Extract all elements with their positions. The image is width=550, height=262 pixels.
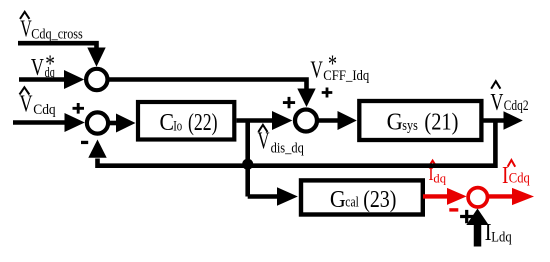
svg-text:Ldq: Ldq: [491, 229, 512, 245]
svg-text:V: V: [20, 92, 33, 118]
svg-text:V: V: [31, 55, 44, 81]
svg-text:C: C: [160, 110, 175, 136]
wire sumI output ICdq (red): [487, 188, 534, 205]
summer sum2: [87, 112, 108, 133]
node VCFF_Idq label: [310, 51, 369, 84]
svg-text:cal: cal: [345, 195, 359, 211]
wire CIo to sum3: [237, 111, 293, 130]
node Vcdq2 label: [490, 81, 528, 116]
node Vdis_dq label: [258, 125, 305, 157]
wire branch Vdis_dq down to Gcal: [245, 121, 250, 197]
svg-text:V: V: [258, 129, 270, 155]
node Idq red label: [428, 161, 446, 186]
plus sign at sumI bottom input: [460, 210, 473, 223]
svg-text:(23): (23): [363, 187, 396, 213]
svg-text:dq: dq: [433, 171, 446, 186]
svg-text:G: G: [387, 110, 403, 136]
wire sum3 to Gsys: [317, 111, 357, 130]
node Vdq* label: [31, 51, 55, 81]
wire Vcdq_cross to sum1: [18, 43, 106, 66]
node ICdq red label: [502, 160, 530, 189]
svg-text:V: V: [490, 90, 503, 116]
summer sum3: [295, 110, 317, 132]
plus sign at sum3 left input: [283, 97, 295, 108]
block Gcal (23): [301, 180, 423, 214]
svg-text:V: V: [310, 58, 323, 84]
summer sum1: [86, 69, 107, 90]
block Gsys (21): [359, 101, 481, 140]
summer sumI (red): [468, 188, 487, 207]
svg-text:(22): (22): [188, 110, 218, 136]
wire feedback Vcdq2 to sum2 minus: [88, 121, 495, 166]
svg-text:sys: sys: [402, 118, 418, 134]
wire Gcal to sumI (red): [423, 188, 467, 205]
svg-text:(21): (21): [424, 110, 458, 136]
plus sign at sum2 input: [73, 103, 85, 114]
wire ILdq into sumI bottom: [466, 209, 488, 247]
svg-text:G: G: [330, 187, 346, 213]
minus sign at sum2 feedback input: [81, 141, 88, 144]
wire Gsys output with arrow: [482, 111, 523, 130]
wire sum1 to sum3 (VCFF path): [108, 80, 316, 108]
wire branch into Gcal: [248, 187, 298, 205]
node Vcdq_cross label: [20, 12, 83, 43]
svg-text:Cdq2: Cdq2: [504, 98, 529, 114]
svg-text:dis_dq: dis_dq: [271, 140, 305, 156]
node ILdq label: [485, 220, 513, 246]
minus sign at sumI left input (red): [449, 208, 458, 211]
svg-text:CFF_Idq: CFF_Idq: [323, 68, 369, 84]
svg-text:Cdq: Cdq: [33, 102, 56, 118]
wire Vdq* into sum1: [19, 70, 84, 89]
block CIo (22): [138, 102, 234, 140]
node Vcdq label: [20, 87, 57, 118]
svg-text:Cdq_cross: Cdq_cross: [31, 26, 83, 42]
wire sum2 to CIo: [108, 114, 136, 133]
svg-text:I: I: [502, 163, 509, 189]
wire Vcdq into sum2: [13, 113, 85, 132]
svg-text:Io: Io: [173, 118, 182, 134]
plus sign at sum3 top input: [322, 88, 333, 98]
svg-text:Cdq: Cdq: [509, 171, 530, 187]
junction dot on feedback crossing: [242, 159, 253, 170]
